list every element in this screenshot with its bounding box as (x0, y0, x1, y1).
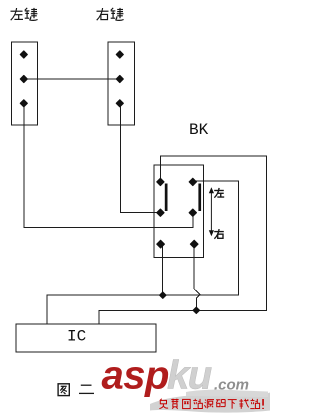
junction node A (160, 292, 166, 298)
label 左 (up) (214, 188, 224, 198)
wire middle pins J1.2-J2.2 (24, 78, 120, 80)
wire J1.3 to BK pin right-mid (24, 105, 193, 228)
svg-text:BK: BK (189, 121, 209, 139)
connector J1 left-button box (12, 42, 38, 125)
svg-text:ku: ku (167, 354, 212, 398)
label 右 (down) (214, 229, 224, 239)
载 (239, 399, 248, 409)
费 (171, 399, 178, 409)
wire BK bottom-right pin jog over wire to node B (194, 246, 200, 310)
connector J2 right-button box (108, 42, 135, 125)
码 (216, 400, 226, 407)
源 (205, 400, 215, 409)
BK switch box (154, 165, 204, 258)
wire J2.3 to BK pin left-mid (120, 105, 159, 212)
contact bar left (165, 184, 168, 212)
pin J2.3 (116, 100, 123, 107)
wire BK left-top pin loop to IC pin2 net (99, 156, 267, 324)
! (262, 399, 264, 409)
watermark ribbon (150, 393, 270, 413)
BK pin left-mid (157, 209, 164, 216)
免 (159, 399, 168, 409)
下 (228, 400, 237, 409)
pin J1.1 (20, 51, 27, 58)
pin J1.3 (20, 100, 27, 107)
caption 图 二 (figure 2) (58, 384, 69, 396)
label 右键 (right key) (97, 8, 124, 20)
pin J1.2 (20, 75, 27, 82)
contact bar right (198, 184, 201, 212)
junction node B (193, 307, 199, 313)
svg-text:.com: .com (214, 377, 249, 394)
BK pin right-mid (189, 209, 196, 216)
网 (183, 399, 191, 408)
BK pin bottom-right (190, 240, 198, 248)
pin J2.2 (116, 75, 123, 82)
label 左键 (left key) (11, 8, 38, 20)
IC box U1 (16, 324, 156, 352)
站 (250, 399, 259, 409)
arrow left/right travel (209, 187, 214, 236)
watermark red slogan 免费网站源码下载站! (159, 399, 263, 409)
wire BK bottom-left pin down to node A (161, 246, 163, 295)
wire BK right-top pin to IC pin1 net (47, 181, 239, 324)
BK pin bottom-left (157, 240, 165, 248)
pin J2.1 (116, 51, 123, 58)
站 (193, 399, 202, 409)
svg-text:asp: asp (102, 354, 169, 398)
BK pin right-top (189, 178, 196, 185)
svg-text:IC: IC (67, 328, 86, 346)
BK pin left-top (157, 178, 164, 185)
